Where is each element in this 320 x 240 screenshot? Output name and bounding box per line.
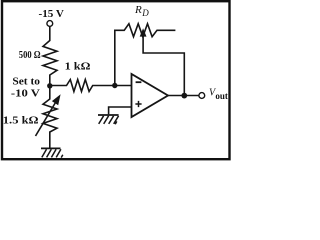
svg-text:out: out (215, 91, 228, 101)
svg-text:-10 V: -10 V (11, 88, 41, 99)
svg-text:1.5 kΩ: 1.5 kΩ (3, 115, 39, 127)
svg-text:1 kΩ: 1 kΩ (65, 61, 91, 73)
svg-text:R: R (134, 4, 142, 16)
svg-text:Set to: Set to (12, 76, 40, 87)
svg-text:D: D (141, 8, 149, 18)
svg-text:500 Ω: 500 Ω (19, 49, 41, 61)
svg-text:-15 V: -15 V (39, 8, 64, 20)
